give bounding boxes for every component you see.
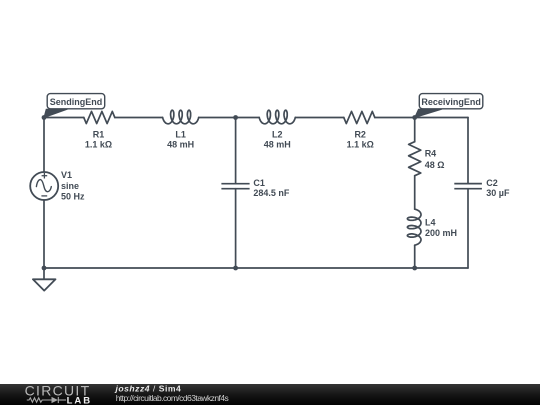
inductor L4 (407, 209, 421, 245)
wire middle vertical below C1 (235, 189, 237, 268)
svg-text:R1: R1 (93, 129, 105, 139)
svg-text:1.1 kΩ: 1.1 kΩ (347, 140, 374, 150)
resistor R4 (409, 142, 421, 176)
svg-text:48 Ω: 48 Ω (425, 160, 445, 170)
node C ReceivingEnd junction (412, 115, 417, 120)
value label R1 (85, 129, 112, 149)
wire top-left horizontal (44, 117, 84, 119)
svg-text:C1: C1 (253, 178, 265, 188)
svg-text:30 µF: 30 µF (486, 188, 510, 198)
svg-text:R4: R4 (425, 149, 437, 159)
svg-text:1.1 kΩ: 1.1 kΩ (85, 140, 112, 150)
resistor R1 (84, 111, 115, 123)
svg-text:sine: sine (61, 181, 79, 191)
wire L1 to L2 (199, 117, 260, 119)
capacitor C1 (221, 184, 249, 189)
wire L4 to bottom wire (414, 245, 416, 268)
svg-text:L2: L2 (272, 129, 283, 139)
capacitor C2 (454, 184, 482, 189)
node E C1 bottom junction (233, 266, 238, 271)
node B L1-L2-C1 junction (233, 115, 238, 120)
node F L4 bottom junction (412, 266, 417, 271)
node A SendingEnd junction (42, 115, 47, 120)
wire bottom horizontal (44, 267, 468, 269)
svg-text:48 mH: 48 mH (167, 140, 194, 150)
value label L1 (167, 129, 194, 149)
svg-text:http://circuitlab.com/cd63tawk: http://circuitlab.com/cd63tawkznf4s (116, 393, 229, 403)
wire node to top-right corner (415, 117, 468, 119)
flag pointer ReceivingEnd (415, 109, 442, 117)
wire ReceivingEnd node to R4 (414, 118, 416, 142)
svg-text:V1: V1 (61, 170, 72, 180)
svg-text:ReceivingEnd: ReceivingEnd (421, 97, 481, 107)
footer bar (0, 384, 540, 405)
value label L4 (425, 218, 457, 238)
wire R1 to L1 (115, 117, 163, 119)
logo resistor-diode squiggle (27, 397, 66, 403)
svg-text:SendingEnd: SendingEnd (50, 97, 103, 107)
logo CircuitLab wordmark (25, 383, 93, 405)
svg-text:284.5 nF: 284.5 nF (253, 188, 290, 198)
inductor L1 (163, 110, 199, 124)
svg-text:50 Hz: 50 Hz (61, 191, 85, 201)
node D ground junction (42, 266, 47, 271)
svg-text:joshzz4 / Sim4: joshzz4 / Sim4 (115, 384, 182, 394)
label flag SendingEnd (47, 94, 104, 109)
svg-text:C2: C2 (486, 178, 498, 188)
label flag ReceivingEnd (419, 94, 483, 109)
wire middle vertical above C1 (235, 118, 237, 184)
svg-text:200 mH: 200 mH (425, 228, 457, 238)
value label C2 (486, 178, 510, 198)
svg-text:L1: L1 (175, 129, 186, 139)
value label R2 (347, 129, 374, 149)
svg-text:48 mH: 48 mH (264, 140, 291, 150)
inductor L2 (259, 110, 295, 124)
svg-text:LAB: LAB (67, 395, 93, 405)
wire R4 to L4 (414, 176, 416, 209)
resistor R2 (344, 111, 375, 123)
source V1 (30, 172, 58, 200)
wire L2 to R2 (295, 117, 344, 119)
wire right vertical below C2 (467, 189, 469, 268)
value label L2 (264, 129, 291, 149)
svg-text:R2: R2 (354, 129, 366, 139)
svg-text:L4: L4 (425, 218, 436, 228)
value label R4 (425, 149, 445, 170)
value label C1 (253, 178, 290, 198)
wire V1 to bottom-left corner (43, 200, 45, 268)
wire left vertical above V1 (43, 118, 45, 173)
ground (33, 268, 56, 291)
wire R2 to ReceivingEnd node (375, 117, 415, 119)
flag pointer SendingEnd (44, 109, 68, 117)
wire right vertical above C2 (467, 118, 469, 184)
value label V1 (61, 170, 85, 201)
